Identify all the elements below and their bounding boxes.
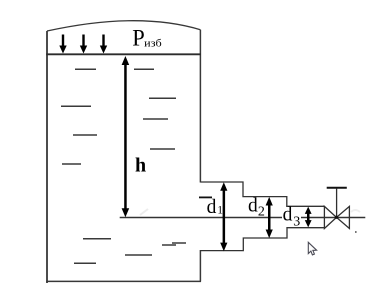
- svg-text:изб: изб: [144, 38, 162, 50]
- svg-text:d: d: [207, 197, 217, 218]
- svg-text:h: h: [135, 155, 146, 177]
- svg-text:d: d: [283, 204, 293, 225]
- svg-text:d: d: [248, 196, 258, 217]
- svg-text:2: 2: [258, 205, 265, 220]
- svg-text:3: 3: [293, 215, 300, 230]
- svg-text:P: P: [132, 25, 145, 50]
- svg-text:1: 1: [217, 205, 223, 217]
